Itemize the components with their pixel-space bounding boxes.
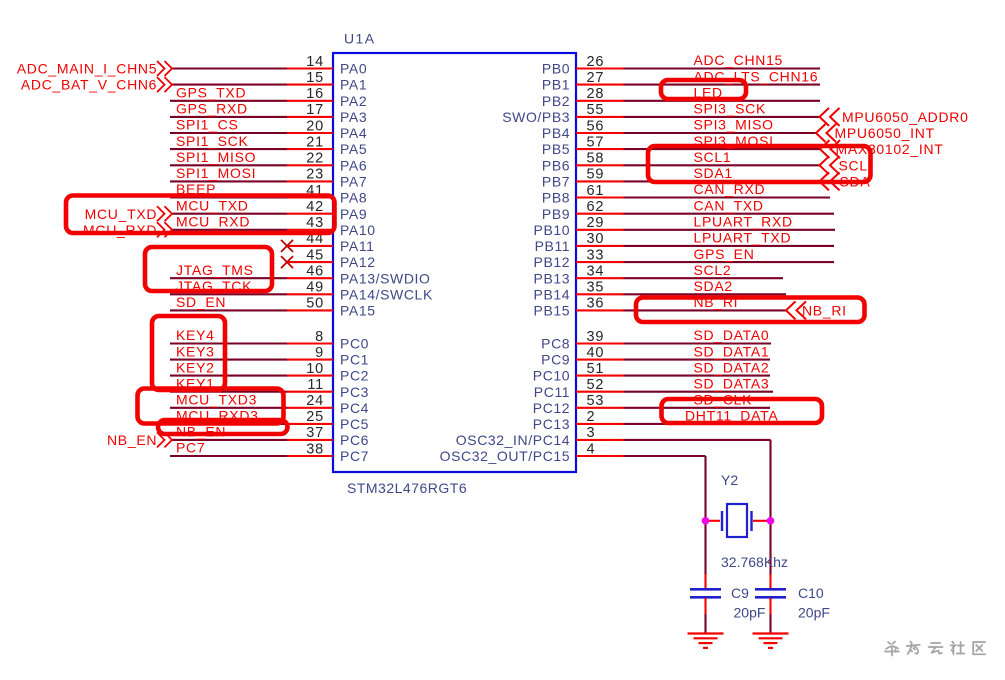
svg-text:PB15: PB15	[534, 303, 571, 319]
wire BEEP to pin 41	[170, 196, 287, 198]
svg-text:43: 43	[306, 215, 324, 231]
op-amp U1A MCU body	[333, 53, 576, 472]
svg-text:ADC_CHN15: ADC_CHN15	[694, 52, 784, 68]
svg-text:SPI1_MOSI: SPI1_MOSI	[176, 165, 256, 181]
svg-text:3: 3	[587, 425, 596, 441]
highlight box NB_EN	[158, 420, 288, 434]
svg-text:PA13/SWDIO: PA13/SWDIO	[340, 270, 431, 286]
svg-text:PC9: PC9	[541, 352, 570, 368]
svg-text:15: 15	[306, 70, 324, 86]
pin 37 PC6 leg	[287, 439, 333, 441]
pin 24 PC4 leg	[287, 407, 333, 409]
svg-text:PB0: PB0	[542, 61, 570, 77]
svg-text:PC2: PC2	[340, 368, 369, 384]
wire SD_EN to pin 50	[170, 309, 287, 311]
svg-text:PC1: PC1	[340, 352, 369, 368]
svg-text:MCU_RXD: MCU_RXD	[83, 222, 157, 238]
svg-text:PC7: PC7	[340, 448, 369, 464]
svg-text:PC11: PC11	[534, 384, 570, 400]
svg-text:9: 9	[315, 345, 324, 361]
pin 50 PA15 leg	[287, 309, 333, 311]
port MPU6050_INT	[816, 124, 826, 142]
pin 22 PA6 leg	[287, 164, 333, 166]
pin 15 PA1 leg	[287, 84, 333, 86]
svg-text:36: 36	[587, 296, 605, 312]
pin 56 PB4 leg	[576, 132, 624, 134]
svg-text:PA5: PA5	[340, 141, 367, 157]
svg-text:30: 30	[587, 231, 605, 247]
pin 59 PB7 leg	[576, 180, 624, 182]
wire from pin 29	[624, 229, 836, 231]
svg-text:MCU_RXD: MCU_RXD	[176, 214, 250, 230]
svg-text:PA15: PA15	[340, 303, 376, 319]
svg-text:52: 52	[587, 377, 605, 393]
wire NB_EN to pin 37	[172, 439, 287, 441]
highlight box SCL1/SDA1/SCL/SDA	[648, 146, 871, 182]
wire from pin 3	[624, 439, 771, 441]
svg-text:PA11: PA11	[340, 238, 375, 254]
svg-text:SD_EN: SD_EN	[176, 294, 226, 310]
svg-text:33: 33	[587, 247, 605, 263]
svg-text:PC7: PC7	[176, 440, 205, 456]
svg-text:PA4: PA4	[340, 125, 367, 141]
svg-text:JTAG_TMS: JTAG_TMS	[176, 262, 254, 278]
wire from pin 40	[624, 359, 771, 361]
svg-text:50: 50	[306, 296, 324, 312]
svg-text:46: 46	[306, 264, 324, 280]
svg-text:38: 38	[306, 441, 324, 457]
svg-text:PA14/SWCLK: PA14/SWCLK	[340, 286, 433, 302]
svg-text:PB11: PB11	[535, 238, 571, 254]
svg-text:28: 28	[587, 86, 605, 102]
wire ADC_MAIN_I_CHN5 to pin 14	[172, 67, 287, 69]
port SDA	[820, 172, 830, 190]
svg-text:4: 4	[587, 441, 596, 457]
svg-text:C9: C9	[731, 585, 749, 601]
svg-text:PA12: PA12	[340, 254, 376, 270]
svg-text:PB13: PB13	[534, 270, 571, 286]
svg-text:PA6: PA6	[340, 157, 367, 173]
svg-text:PA9: PA9	[340, 206, 367, 222]
svg-text:42: 42	[306, 199, 324, 215]
wire GPS_RXD to pin 17	[170, 116, 287, 118]
pin 36 PB15 leg	[576, 309, 624, 311]
pin 3 OSC32_IN/PC14 leg	[576, 439, 624, 441]
svg-text:29: 29	[587, 215, 605, 231]
wire from pin 39	[624, 342, 772, 344]
wire from pin 56	[624, 132, 817, 134]
svg-text:20: 20	[306, 118, 324, 134]
svg-text:8: 8	[315, 329, 324, 345]
svg-text:NB_EN: NB_EN	[107, 432, 157, 448]
pin 2 PC13 leg	[576, 423, 624, 425]
svg-text:PB10: PB10	[534, 222, 571, 238]
ground symbol under C9	[688, 634, 724, 648]
svg-text:PB9: PB9	[542, 206, 570, 222]
svg-text:MPU6050_ADDR0: MPU6050_ADDR0	[842, 109, 969, 125]
pin 46 PA13/SWDIO leg	[287, 277, 333, 279]
svg-text:32.768Khz: 32.768Khz	[721, 554, 788, 570]
wire C10 to ground	[769, 614, 771, 633]
svg-text:SPI1_SCK: SPI1_SCK	[176, 133, 249, 149]
wire PC7 to pin 38	[170, 455, 287, 457]
wire SPI1_MISO to pin 22	[170, 164, 287, 166]
highlight box MCU_TXD/MCU_RXD	[66, 196, 335, 234]
svg-text:10: 10	[306, 361, 324, 377]
svg-text:59: 59	[587, 167, 605, 183]
svg-text:KEY4: KEY4	[176, 327, 215, 343]
wire from pin 52	[624, 391, 774, 393]
pin 55 SWO/PB3 leg	[576, 116, 624, 118]
pin 42 PA9 leg	[287, 213, 333, 215]
wire MCU_RXD3 to pin 25	[170, 423, 287, 425]
no-connect X on pin 45	[281, 256, 293, 268]
wire from pin 57	[624, 148, 821, 150]
svg-text:LPUART_RXD: LPUART_RXD	[694, 214, 793, 230]
svg-text:2: 2	[587, 409, 596, 425]
svg-text:PB2: PB2	[542, 93, 570, 109]
svg-text:PB7: PB7	[542, 174, 570, 190]
svg-text:PC4: PC4	[340, 400, 369, 416]
capacitor C9 bottom pin	[704, 598, 706, 614]
wire MCU_TXD to pin 42	[172, 213, 287, 215]
wire from pin 27	[624, 84, 821, 86]
svg-text:PC8: PC8	[541, 336, 570, 352]
svg-text:PC0: PC0	[340, 336, 369, 352]
pin 9 PC1 leg	[287, 359, 333, 361]
wire SPI1_MOSI to pin 23	[170, 180, 287, 182]
svg-text:U1A: U1A	[344, 31, 375, 47]
pin 27 PB1 leg	[576, 84, 624, 86]
crystal Y2 right electrode	[750, 511, 752, 531]
svg-text:35: 35	[587, 280, 605, 296]
pin 21 PA5 leg	[287, 148, 333, 150]
svg-text:NB_EN: NB_EN	[176, 424, 226, 440]
port NB_RI	[786, 301, 796, 319]
pin 30 PB11 leg	[576, 245, 624, 247]
svg-text:11: 11	[307, 377, 324, 393]
pin 51 PC10 leg	[576, 375, 624, 377]
wire ADC_BAT_V_CHN6 to pin 15	[172, 84, 287, 86]
pin 17 PA3 leg	[287, 116, 333, 118]
wire OSC32_IN vertical	[769, 440, 771, 521]
svg-text:56: 56	[587, 118, 605, 134]
pin 58 PB6 leg	[576, 164, 624, 166]
wire SPI1_SCK to pin 21	[170, 148, 287, 150]
svg-text:SPI1_CS: SPI1_CS	[176, 117, 239, 133]
pin 38 PC7 leg	[287, 455, 333, 457]
wire from pin 33	[624, 261, 835, 263]
svg-text:34: 34	[587, 264, 605, 280]
wire from pin 4	[624, 455, 706, 457]
highlight box NB_RI	[636, 298, 865, 323]
wire from pin 61	[624, 196, 831, 198]
wire from pin 55	[624, 116, 820, 118]
pin 49 PA14/SWCLK leg	[287, 293, 333, 295]
svg-text:24: 24	[306, 393, 324, 409]
svg-text:55: 55	[587, 102, 605, 118]
wire from pin 28	[624, 100, 821, 102]
pin 11 PC3 leg	[287, 391, 333, 393]
svg-text:SCL: SCL	[839, 157, 868, 173]
svg-text:PC12: PC12	[533, 400, 570, 416]
wire JTAG_TCK to pin 49	[170, 293, 287, 295]
wire from pin 36	[624, 309, 787, 311]
svg-text:61: 61	[587, 183, 605, 199]
crystal Y2 body	[727, 504, 747, 537]
svg-text:PA10: PA10	[340, 222, 376, 238]
capacitor C9 top pin	[704, 574, 706, 588]
svg-text:PB1: PB1	[542, 77, 570, 93]
pin 61 PB8 leg	[576, 196, 624, 198]
wire KEY4 to pin 8	[170, 342, 287, 344]
svg-text:PB8: PB8	[542, 190, 570, 206]
svg-text:OSC32_IN/PC14: OSC32_IN/PC14	[456, 432, 570, 448]
highlight box LED	[661, 80, 746, 99]
svg-text:27: 27	[587, 70, 605, 86]
junction node right	[767, 517, 775, 525]
svg-text:MAX30102_INT: MAX30102_INT	[836, 141, 944, 157]
svg-text:17: 17	[306, 102, 324, 118]
wire from pin 35	[624, 293, 787, 295]
svg-text:MPU6050_INT: MPU6050_INT	[835, 125, 935, 141]
port SCL	[820, 156, 830, 174]
svg-text:GPS_TXD: GPS_TXD	[176, 85, 246, 101]
pin 10 PC2 leg	[287, 375, 333, 377]
wire KEY3 to pin 9	[170, 359, 287, 361]
svg-text:PB6: PB6	[542, 157, 570, 173]
svg-text:16: 16	[306, 86, 324, 102]
svg-text:PC10: PC10	[533, 368, 570, 384]
wire MCU_TXD3 to pin 24	[170, 407, 287, 409]
wire from pin 62	[624, 213, 835, 215]
svg-text:NB_RI: NB_RI	[802, 303, 847, 319]
wire from pin 58	[624, 164, 820, 166]
pin 41 PA8 leg	[287, 196, 333, 198]
wire C9 to ground	[704, 614, 706, 633]
wire SPI1_CS to pin 20	[170, 132, 287, 134]
svg-text:Y2: Y2	[721, 472, 738, 488]
svg-text:SD_DATA0: SD_DATA0	[694, 327, 770, 343]
wire from pin 30	[624, 245, 835, 247]
svg-text:62: 62	[587, 199, 605, 215]
svg-text:SCL2: SCL2	[694, 262, 732, 278]
pin 23 PA7 leg	[287, 180, 333, 182]
wire from pin 59	[624, 180, 820, 182]
svg-text:26: 26	[587, 54, 605, 70]
svg-text:SDA1: SDA1	[694, 165, 733, 181]
svg-text:21: 21	[306, 134, 324, 150]
svg-text:PB12: PB12	[534, 254, 571, 270]
svg-text:PC3: PC3	[340, 384, 369, 400]
svg-text:CAN_TXD: CAN_TXD	[694, 197, 764, 213]
junction node left	[702, 517, 710, 525]
pin 34 PB13 leg	[576, 277, 624, 279]
pin 53 PC12 leg	[576, 407, 624, 409]
svg-text:SPI1_MISO: SPI1_MISO	[176, 149, 256, 165]
svg-text:STM32L476RGT6: STM32L476RGT6	[347, 480, 467, 496]
svg-text:PA8: PA8	[340, 190, 367, 206]
pin 4 OSC32_OUT/PC15 leg	[576, 455, 624, 457]
svg-text:25: 25	[306, 409, 324, 425]
svg-text:PC5: PC5	[340, 416, 369, 432]
wire MCU_RXD to pin 43	[172, 229, 287, 231]
port MPU6050_ADDR0	[820, 108, 830, 126]
svg-text:51: 51	[587, 361, 605, 377]
svg-text:SPI3_SCK: SPI3_SCK	[694, 101, 767, 117]
ground symbol under C10	[753, 634, 789, 648]
pin 26 PB0 leg	[576, 67, 624, 69]
svg-text:53: 53	[587, 393, 605, 409]
capacitor C10 plates	[755, 588, 786, 591]
pin 8 PC0 leg	[287, 342, 333, 344]
crystal Y2 right pin	[753, 520, 771, 522]
wire JTAG_TMS to pin 46	[170, 277, 287, 279]
wire from pin 2	[624, 423, 771, 425]
capacitor C10 bottom pin	[769, 598, 771, 614]
svg-text:20pF: 20pF	[734, 605, 766, 621]
svg-text:PA2: PA2	[340, 93, 367, 109]
pin 29 PB10 leg	[576, 229, 624, 231]
pin 20 PA4 leg	[287, 132, 333, 134]
pin 40 PC9 leg	[576, 359, 624, 361]
watermark huawei cloud community	[885, 642, 899, 656]
svg-text:PB14: PB14	[534, 286, 571, 302]
pin 57 PB5 leg	[576, 148, 624, 150]
svg-text:PA1: PA1	[340, 77, 367, 93]
highlight box KEY group	[152, 316, 225, 390]
pin 44 PA11 leg	[287, 245, 333, 247]
svg-text:ADC_BAT_V_CHN6: ADC_BAT_V_CHN6	[21, 77, 157, 93]
svg-text:ADC_MAIN_I_CHN5: ADC_MAIN_I_CHN5	[17, 61, 157, 77]
pin 35 PB14 leg	[576, 293, 624, 295]
wire from pin 26	[624, 67, 821, 69]
svg-text:KEY2: KEY2	[176, 359, 215, 375]
svg-text:MCU_TXD3: MCU_TXD3	[176, 392, 257, 408]
wire KEY2 to pin 10	[170, 375, 287, 377]
svg-text:22: 22	[306, 151, 324, 167]
wire GPS_TXD to pin 16	[170, 100, 287, 102]
pin 25 PC5 leg	[287, 423, 333, 425]
svg-text:SDA2: SDA2	[694, 278, 733, 294]
svg-text:MCU_TXD: MCU_TXD	[85, 206, 158, 222]
svg-text:39: 39	[587, 329, 605, 345]
crystal Y2 left pin	[706, 520, 721, 522]
svg-text:14: 14	[306, 54, 324, 70]
pin 52 PC11 leg	[576, 391, 624, 393]
wire right cap branch	[769, 521, 771, 574]
pin 14 PA0 leg	[287, 67, 333, 69]
svg-text:57: 57	[587, 134, 605, 150]
wire left cap branch	[704, 521, 706, 574]
svg-text:LPUART_TXD: LPUART_TXD	[694, 230, 792, 246]
svg-text:58: 58	[587, 151, 605, 167]
svg-text:PA0: PA0	[340, 61, 367, 77]
svg-text:PA7: PA7	[340, 174, 367, 190]
wire from pin 53	[624, 407, 771, 409]
pin 62 PB9 leg	[576, 213, 624, 215]
pin 16 PA2 leg	[287, 100, 333, 102]
crystal Y2 left electrode	[721, 511, 723, 531]
svg-text:OSC32_OUT/PC15: OSC32_OUT/PC15	[440, 448, 571, 464]
svg-text:PA3: PA3	[340, 109, 367, 125]
svg-text:PC6: PC6	[340, 432, 369, 448]
svg-text:49: 49	[306, 280, 324, 296]
svg-text:45: 45	[306, 247, 324, 263]
svg-text:SD_DATA3: SD_DATA3	[694, 375, 770, 391]
highlight box MCU_TXD3/MCU_RXD3	[138, 389, 284, 424]
svg-text:SCL1: SCL1	[694, 149, 732, 165]
pin 43 PA10 leg	[287, 229, 333, 231]
wire from pin 34	[624, 277, 784, 279]
wire KEY1 to pin 11	[170, 391, 287, 393]
svg-text:PB4: PB4	[542, 125, 570, 141]
wire OSC32_OUT vertical	[704, 456, 706, 521]
pin 45 PA12 leg	[287, 261, 333, 263]
svg-text:MCU_TXD: MCU_TXD	[176, 197, 249, 213]
capacitor C10 top pin	[769, 574, 771, 588]
highlight box DHT11_DATA	[662, 399, 823, 423]
svg-text:PC13: PC13	[533, 416, 570, 432]
svg-text:SPI3_MISO: SPI3_MISO	[694, 117, 774, 133]
svg-text:KEY3: KEY3	[176, 343, 215, 359]
port MAX30102_INT	[820, 140, 830, 158]
wire from pin 51	[624, 375, 771, 377]
svg-text:GPS_EN: GPS_EN	[694, 246, 755, 262]
svg-text:23: 23	[306, 167, 324, 183]
capacitor C9 plates	[690, 588, 721, 591]
pin 33 PB12 leg	[576, 261, 624, 263]
svg-text:20pF: 20pF	[798, 605, 830, 621]
svg-text:37: 37	[306, 425, 324, 441]
svg-text:GPS_RXD: GPS_RXD	[176, 101, 248, 117]
highlight box JTAG_TMS	[145, 247, 272, 291]
svg-text:SD_DATA1: SD_DATA1	[694, 343, 770, 359]
svg-text:40: 40	[587, 345, 605, 361]
svg-text:C10: C10	[798, 585, 824, 601]
svg-text:SD_DATA2: SD_DATA2	[694, 359, 770, 375]
pin 39 PC8 leg	[576, 342, 624, 344]
svg-text:PB5: PB5	[542, 141, 570, 157]
svg-text:SWO/PB3: SWO/PB3	[502, 109, 570, 125]
no-connect X on pin 44	[281, 240, 293, 252]
pin 28 PB2 leg	[576, 100, 624, 102]
